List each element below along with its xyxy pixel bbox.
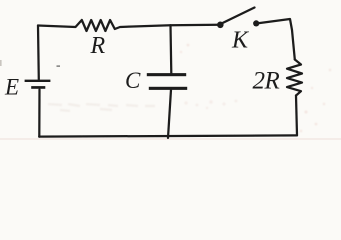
svg-text:R: R: [90, 33, 106, 59]
svg-text:K: K: [231, 28, 250, 54]
svg-text:E: E: [4, 75, 19, 100]
svg-text:C: C: [125, 68, 141, 93]
svg-text:2R: 2R: [253, 68, 280, 95]
